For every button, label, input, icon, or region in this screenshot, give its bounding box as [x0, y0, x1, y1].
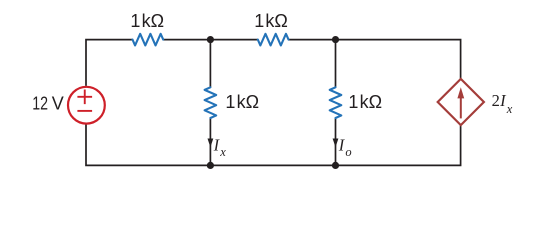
label 1 kOhm for R1 [130, 11, 164, 31]
wire: branch 2 upper (node B down to R4) [335, 40, 337, 88]
wire: top middle between R1 and R2 [163, 39, 258, 41]
svg-text:1kΩ: 1kΩ [225, 92, 259, 112]
wire: branch 1 lower (R3 down to bottom rail) [209, 118, 211, 166]
resistor R3 1 kOhm (middle, vertical) [205, 87, 217, 118]
svg-text:x: x [219, 145, 226, 159]
svg-text:x: x [506, 102, 513, 116]
svg-text:12V: 12V [32, 94, 64, 114]
label 1 kOhm for R4 [348, 92, 382, 112]
node A (top junction 1) [207, 36, 214, 43]
resistor R2 1 kOhm (top right, horizontal) [258, 34, 289, 46]
current arrow Io (down, on branch 2) [333, 139, 339, 148]
svg-text:2: 2 [492, 91, 500, 110]
wire: bottom rail with left and right risers [86, 124, 461, 165]
wire: left branch from source top up and across to R1 [86, 40, 133, 86]
node C (bottom junction 1) [207, 162, 214, 169]
label 1 kOhm for R3 [225, 92, 259, 112]
label 1 kOhm for R2 [254, 11, 288, 31]
node D (bottom junction 2) [332, 162, 339, 169]
svg-text:1kΩ: 1kΩ [348, 92, 382, 112]
voltage source V1 12V (independent source circle) [68, 87, 105, 124]
label 2Ix [492, 91, 513, 116]
label Ix [213, 136, 227, 159]
svg-text:1kΩ: 1kΩ [130, 11, 164, 31]
node B (top junction 2) [332, 36, 339, 43]
current arrow Ix (down, on branch 1) [208, 139, 214, 148]
resistor R4 1 kOhm (right middle, vertical) [330, 87, 342, 118]
dependent current source 2Ix (diamond) [438, 79, 484, 125]
label Io [338, 136, 352, 160]
svg-text:1kΩ: 1kΩ [254, 11, 288, 31]
wire: branch 1 upper (node A down to R3) [209, 40, 211, 88]
label 12 V [32, 94, 64, 114]
resistor R1 1 kOhm (top left, horizontal) [133, 34, 164, 46]
svg-text:o: o [345, 145, 351, 159]
wire: top right from R2 to right corner and down to current source [289, 40, 461, 80]
wire: branch 2 lower (R4 down to bottom rail) [335, 118, 337, 166]
